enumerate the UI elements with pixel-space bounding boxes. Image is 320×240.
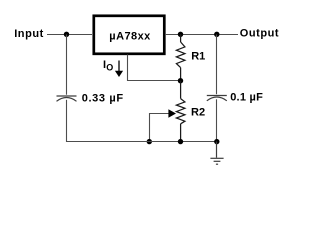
svg-text:µA78xx: µA78xx [109,31,151,43]
arrow R2 wiper head [168,109,176,117]
junction R2 ground node [178,139,183,144]
wire output [165,34,238,36]
svg-text:O: O [106,62,113,72]
junction input node [64,32,69,37]
junction output R1 node [178,32,183,37]
wire input capacitor branch upper [66,35,68,95]
junction wiper ground node [147,139,152,144]
junction R1 R2 node [178,78,183,83]
svg-text:0.1 µF: 0.1 µF [230,91,263,103]
junction C2 ground node [214,139,219,144]
ground [210,142,223,165]
capacitor C1 0.33uF [57,96,77,101]
wire ground rail [66,141,217,143]
wire input [47,34,92,36]
wire capacitor C1 lower lead [66,100,68,142]
svg-text:Input: Input [14,28,44,40]
svg-text:0.33 µF: 0.33 µF [82,92,124,104]
resistor R2 variable [176,81,185,142]
wire regulator common pin [128,55,181,81]
regulator U1 uA78xx [94,16,165,54]
wire capacitor C2 lower lead [216,99,218,141]
svg-text:Output: Output [240,28,279,40]
arrow IO direction [118,61,120,72]
wire C2 branch upper [216,35,218,95]
wire R2 wiper [150,114,170,142]
svg-text:R2: R2 [191,107,205,119]
junction output C2 node [214,32,219,37]
capacitor C2 0.1uF [207,96,227,101]
svg-text:R1: R1 [191,51,205,63]
resistor R1 [176,34,185,81]
